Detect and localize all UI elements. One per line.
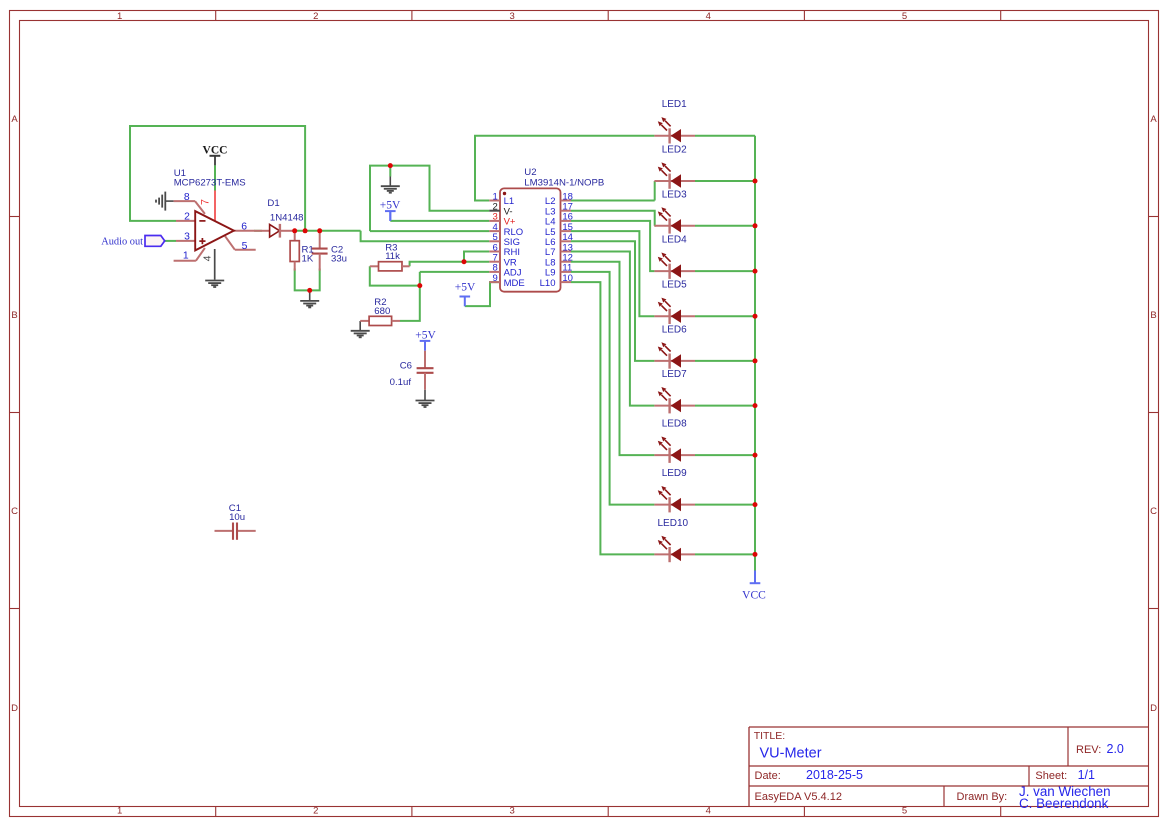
- svg-text:LED10: LED10: [658, 518, 689, 529]
- svg-text:EasyEDA V5.4.12: EasyEDA V5.4.12: [755, 791, 842, 803]
- svg-text:LED1: LED1: [662, 99, 687, 110]
- svg-text:LED6: LED6: [662, 324, 687, 335]
- svg-text:D: D: [1150, 703, 1157, 714]
- svg-text:5: 5: [902, 11, 907, 22]
- svg-text:U2: U2: [524, 167, 536, 178]
- svg-text:B: B: [1150, 310, 1156, 321]
- svg-text:LM3914N-1/NOPB: LM3914N-1/NOPB: [524, 177, 604, 188]
- svg-text:1: 1: [117, 11, 122, 22]
- svg-text:LED5: LED5: [662, 280, 687, 291]
- svg-text:7: 7: [199, 199, 211, 205]
- svg-text:C. Beerendonk: C. Beerendonk: [1019, 796, 1109, 811]
- svg-text:2: 2: [313, 806, 318, 817]
- svg-text:Date:: Date:: [755, 770, 781, 782]
- svg-text:11k: 11k: [385, 251, 400, 262]
- svg-text:1: 1: [117, 806, 122, 817]
- svg-text:LED2: LED2: [662, 145, 687, 156]
- svg-text:TITLE:: TITLE:: [754, 730, 786, 742]
- svg-text:5: 5: [902, 806, 907, 817]
- svg-text:4: 4: [706, 11, 711, 22]
- svg-text:4: 4: [202, 255, 213, 261]
- svg-text:VCC: VCC: [203, 144, 228, 156]
- svg-text:D: D: [11, 703, 18, 714]
- svg-text:A: A: [1150, 114, 1157, 125]
- svg-text:1N4148: 1N4148: [270, 212, 304, 223]
- svg-text:LED4: LED4: [662, 235, 687, 246]
- svg-text:LED8: LED8: [662, 419, 687, 430]
- svg-text:33u: 33u: [331, 253, 347, 264]
- svg-text:LED3: LED3: [662, 189, 687, 200]
- svg-text:9: 9: [493, 273, 498, 284]
- svg-text:6: 6: [241, 221, 247, 232]
- svg-text:Audio out: Audio out: [101, 237, 143, 248]
- svg-text:3: 3: [509, 806, 514, 817]
- svg-text:MCP6273T-EMS: MCP6273T-EMS: [174, 178, 246, 189]
- svg-text:REV:: REV:: [1076, 744, 1101, 756]
- svg-text:1/1: 1/1: [1078, 768, 1095, 782]
- svg-text:L10: L10: [540, 278, 556, 289]
- svg-text:Sheet:: Sheet:: [1035, 770, 1067, 782]
- svg-text:+5V: +5V: [415, 329, 436, 341]
- svg-text:LED7: LED7: [662, 369, 687, 380]
- svg-text:Drawn By:: Drawn By:: [957, 791, 1008, 803]
- svg-text:3: 3: [184, 231, 190, 242]
- svg-text:+5V: +5V: [455, 282, 476, 294]
- svg-text:5: 5: [242, 241, 248, 252]
- svg-text:1: 1: [183, 251, 189, 262]
- svg-text:D1: D1: [267, 198, 279, 209]
- svg-text:C6: C6: [400, 361, 412, 372]
- svg-text:10: 10: [562, 273, 573, 284]
- svg-text:2: 2: [184, 212, 190, 223]
- svg-text:8: 8: [184, 192, 190, 203]
- svg-text:B: B: [11, 310, 17, 321]
- svg-text:2: 2: [313, 11, 318, 22]
- svg-text:C: C: [11, 506, 18, 517]
- svg-text:MDE: MDE: [504, 278, 525, 289]
- svg-text:10u: 10u: [229, 512, 245, 523]
- svg-text:3: 3: [509, 11, 514, 22]
- svg-text:C: C: [1150, 506, 1157, 517]
- svg-text:680: 680: [374, 306, 390, 317]
- svg-text:LED9: LED9: [662, 468, 687, 479]
- svg-text:1K: 1K: [302, 253, 314, 264]
- svg-text:VCC: VCC: [742, 590, 766, 602]
- svg-text:4: 4: [706, 806, 711, 817]
- svg-text:2.0: 2.0: [1107, 742, 1124, 756]
- svg-text:2018-25-5: 2018-25-5: [806, 768, 863, 782]
- svg-text:A: A: [11, 114, 18, 125]
- svg-text:0.1uf: 0.1uf: [390, 377, 412, 388]
- svg-text:VU-Meter: VU-Meter: [760, 745, 822, 761]
- svg-text:+5V: +5V: [380, 200, 401, 212]
